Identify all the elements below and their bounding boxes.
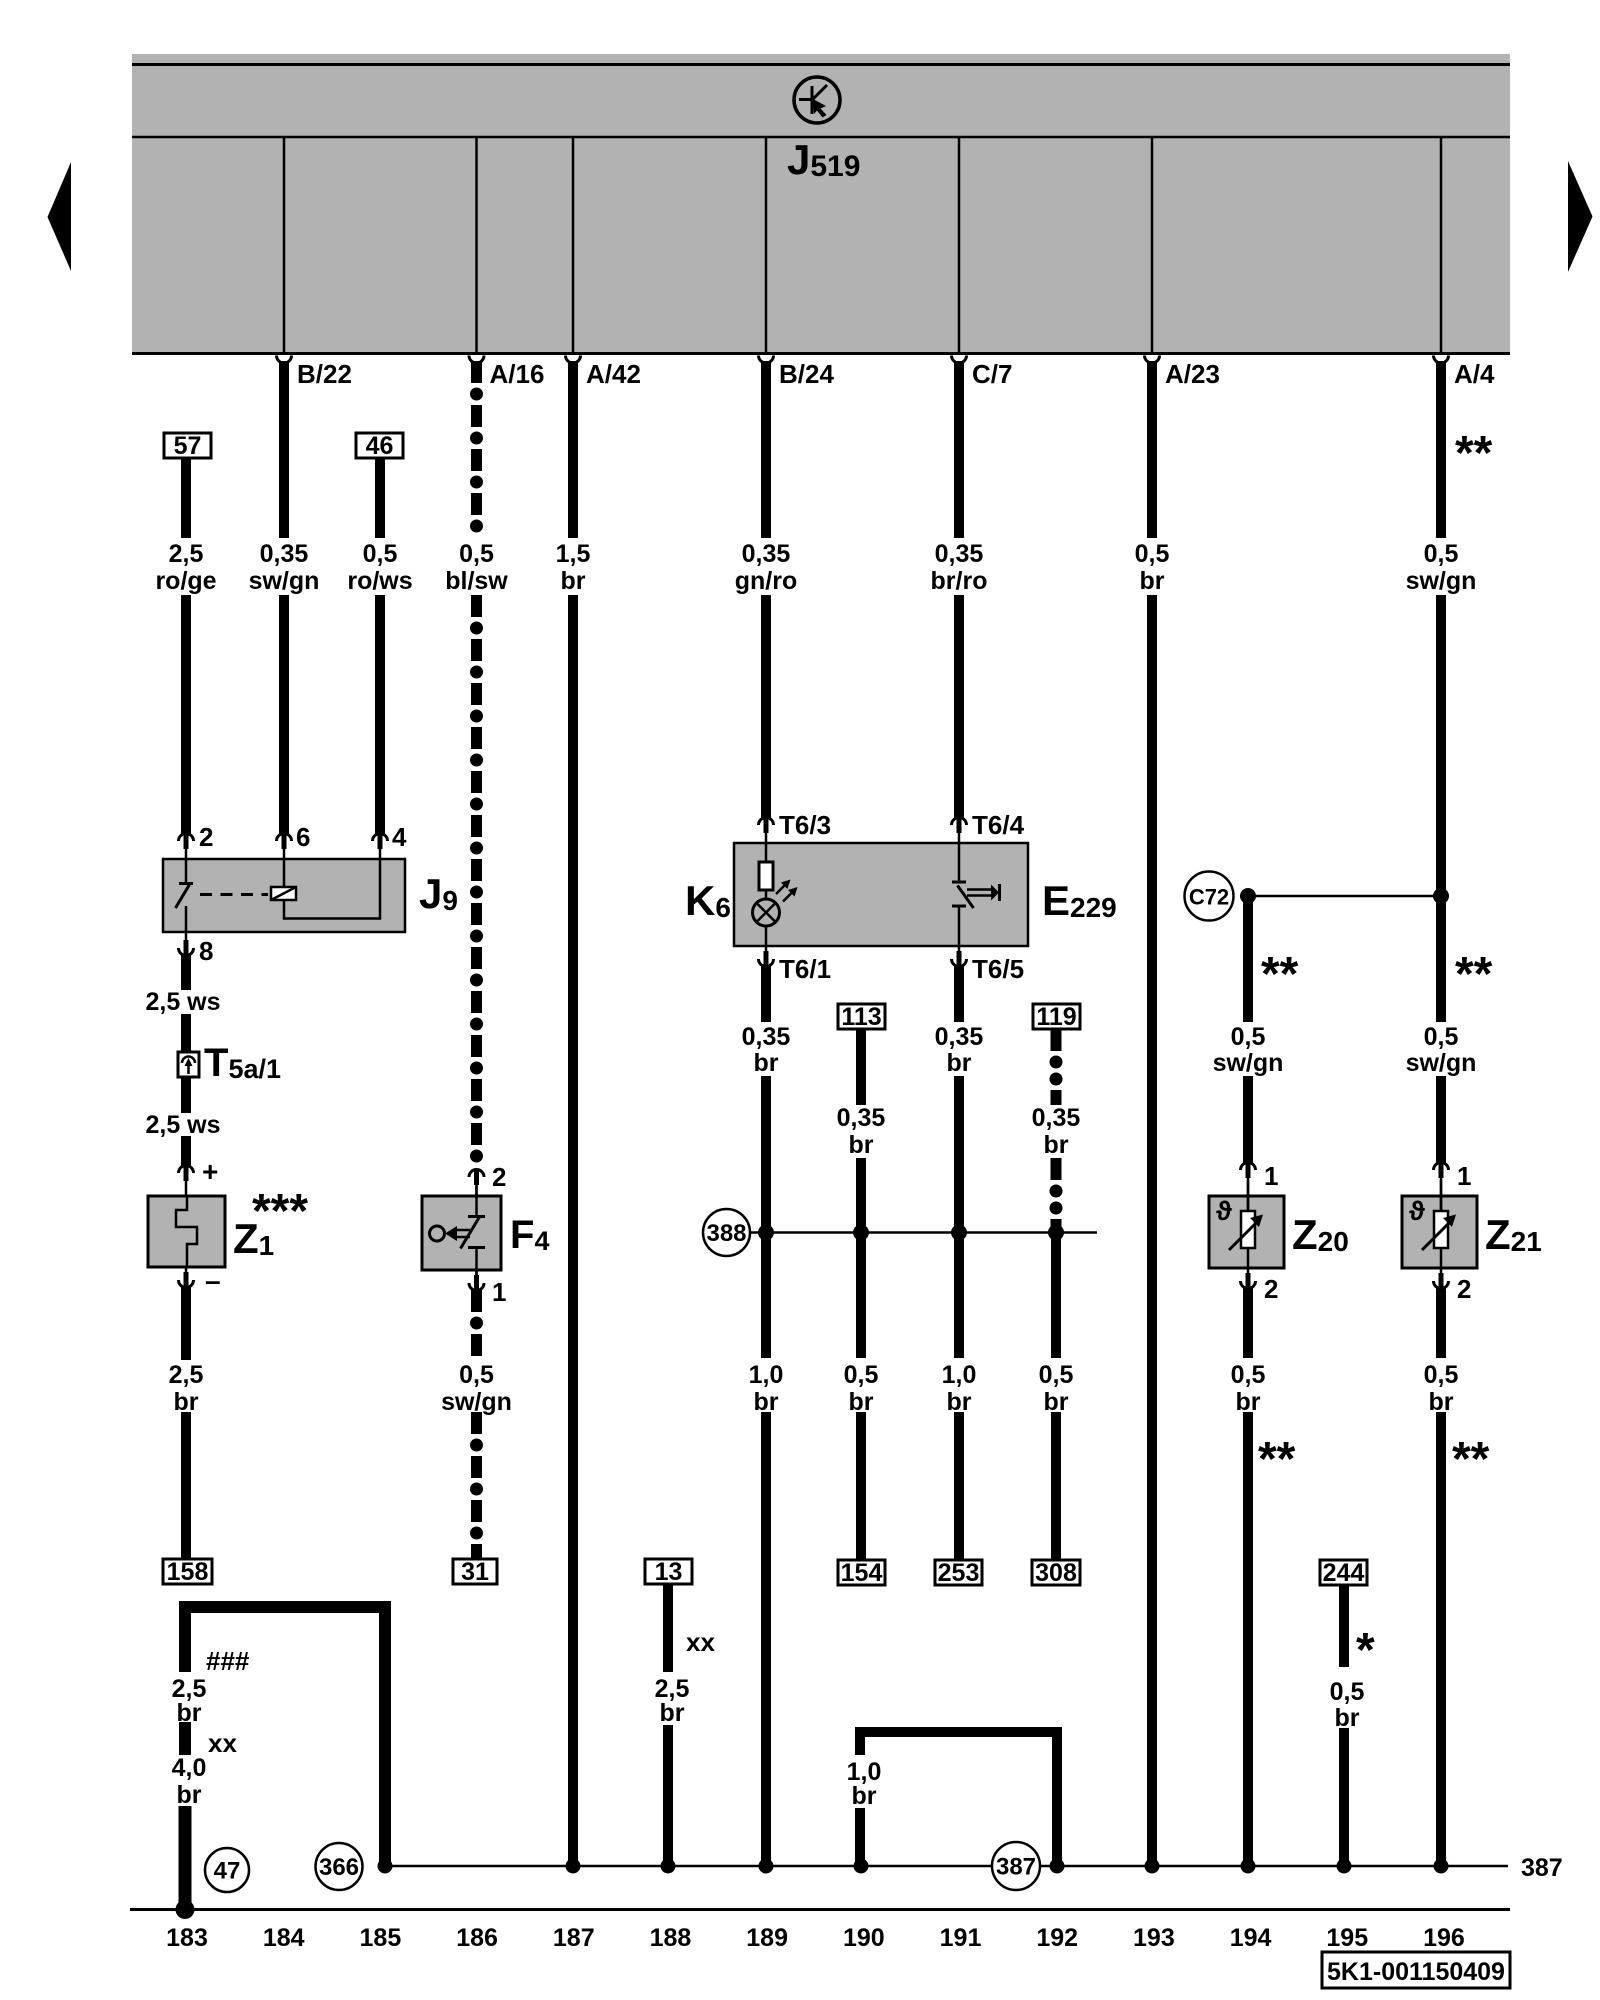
K6 pin T6/1: [765, 946, 768, 951]
svg-text:br: br: [754, 1388, 779, 1416]
wire 1,5 br from J519 A/42 to ground line: [568, 361, 578, 538]
svg-text:113: 113: [841, 1003, 881, 1031]
wire 0,5 br from ground 244 to ground line: [1339, 1585, 1349, 1667]
wire 0,35 br from K6 T6/1 to node 388 and 1,0 br down to ground line: [761, 966, 771, 1022]
junction: [378, 1859, 393, 1874]
svg-text:8: 8: [199, 936, 213, 966]
junction: [1240, 888, 1256, 904]
svg-text:2: 2: [199, 822, 213, 852]
right continuation arrow: [1568, 161, 1593, 272]
svg-text:196: 196: [1423, 1924, 1465, 1952]
svg-text:–: –: [205, 1265, 221, 1296]
terminal 46: [356, 433, 403, 458]
svg-text:0,5: 0,5: [363, 540, 398, 568]
svg-text:sw/gn: sw/gn: [1213, 1049, 1284, 1077]
svg-text:A/23: A/23: [1165, 359, 1220, 389]
svg-text:1,0: 1,0: [942, 1361, 977, 1389]
relay J9: [163, 859, 405, 932]
svg-text:gn/ro: gn/ro: [735, 567, 798, 595]
wire 0,5 br from Z21 pin2 to ground line: [1436, 1288, 1446, 1358]
wire 0,35 br dash-dot from connector 119 to node 388, 0,5 br to ground 308: [1051, 1029, 1062, 1105]
internal pin lines of J519: [283, 137, 286, 352]
svg-text:br: br: [174, 1388, 199, 1416]
wire 0,5 sw/gn dash-dot from F4 pin1 to ground 31: [471, 1290, 482, 1356]
wire 0,5 ro/ws from terminal 46 to J9 pin4: [375, 458, 385, 538]
wire 0,35 br / 0,5 br from connector 113 through node 388 to ground 154: [856, 1029, 866, 1105]
svg-text:br/ro: br/ro: [931, 567, 988, 595]
svg-text:br: br: [754, 1049, 779, 1077]
left continuation arrow: [48, 162, 72, 271]
svg-text:46: 46: [366, 432, 394, 460]
svg-text:192: 192: [1036, 1924, 1078, 1952]
svg-text:A/4: A/4: [1454, 359, 1495, 389]
node C72 wire link: [1256, 895, 1441, 898]
svg-text:189: 189: [746, 1924, 788, 1952]
svg-text:119: 119: [1036, 1003, 1076, 1031]
E229 pin T6/4: [952, 818, 967, 825]
wire 0,5 bl/sw from J519 A/16 to F4 pin2 (dash-dot): [471, 361, 482, 515]
svg-text:0,5: 0,5: [459, 1361, 494, 1389]
wire 0,5 sw/gn from J519 A/4 through node C72 to Z21 pin1: [1436, 361, 1446, 538]
svg-text:387: 387: [996, 1854, 1036, 1881]
brake light switch F4: [422, 1186, 501, 1277]
diagram id box 5K1-001150409: [1322, 1952, 1510, 1988]
svg-text:br: br: [947, 1388, 972, 1416]
svg-text:2: 2: [1457, 1274, 1471, 1304]
junction: [1145, 1859, 1160, 1874]
svg-text:sw/gn: sw/gn: [441, 1388, 512, 1416]
svg-text:B/24: B/24: [779, 359, 834, 389]
junction: [566, 1859, 581, 1874]
svg-text:13: 13: [655, 1558, 683, 1586]
junction: [1241, 1859, 1256, 1874]
svg-text:ϑ: ϑ: [1216, 1196, 1232, 1226]
J9 pin 4: [373, 834, 388, 841]
svg-text:sw/gn: sw/gn: [1406, 1049, 1477, 1077]
wire 2,5 br / 4,0 br ground loop from terminal 158 area: [179, 1601, 391, 1613]
svg-text:br: br: [1044, 1388, 1069, 1416]
junction: [661, 1859, 676, 1874]
svg-text:0,5: 0,5: [1039, 1361, 1074, 1389]
J519 pin A/23 connector: [1145, 356, 1160, 364]
svg-text:+: +: [202, 1156, 218, 1187]
svg-text:1: 1: [1264, 1161, 1278, 1191]
svg-text:br: br: [561, 567, 586, 595]
svg-text:195: 195: [1326, 1924, 1368, 1952]
battery Z1: [148, 1196, 225, 1267]
wire 2,5 ws from J9 pin8 to battery Z1: [181, 955, 191, 990]
J9 pin 6: [277, 834, 292, 841]
ground line 387: [385, 1865, 991, 1868]
svg-text:5K1-001150409: 5K1-001150409: [1327, 1958, 1505, 1986]
svg-text:br: br: [1335, 1704, 1360, 1732]
wire 0,35 br from E229 T6/5 through node 388, 1,0 br to ground 253: [954, 966, 964, 1022]
J519 pin B/24 connector: [759, 356, 774, 364]
junction: [1337, 1859, 1352, 1874]
wire 1,0 br ground loop (tracks 190-192): [855, 1727, 1062, 1737]
svg-text:br: br: [947, 1049, 972, 1077]
svg-text:4,0: 4,0: [172, 1754, 207, 1782]
svg-text:2,5: 2,5: [169, 1361, 204, 1389]
svg-text:186: 186: [456, 1924, 498, 1952]
wire 0,5 br from J519 A/23 to ground line: [1147, 361, 1157, 538]
junction: [854, 1859, 869, 1874]
svg-text:ϑ: ϑ: [1409, 1196, 1425, 1226]
F4 pin 2: [469, 1170, 484, 1178]
connector 113: [838, 1004, 885, 1029]
wire 2,5 br from Z1 minus to ground 158: [181, 1287, 191, 1360]
svg-text:244: 244: [1323, 1559, 1365, 1587]
svg-text:191: 191: [940, 1924, 982, 1952]
junction: [853, 1225, 869, 1241]
ground 253: [935, 1560, 982, 1585]
svg-text:xx: xx: [686, 1627, 715, 1657]
ground 13: [645, 1559, 692, 1584]
ground 158: [163, 1559, 212, 1584]
svg-text:C/7: C/7: [972, 359, 1012, 389]
svg-text:br: br: [1236, 1388, 1261, 1416]
svg-text:1,5: 1,5: [556, 540, 591, 568]
wire 0,35 gn/ro from J519 B/24 to K6 T6/3: [761, 361, 771, 538]
svg-text:T6/3: T6/3: [779, 810, 831, 840]
svg-text:388: 388: [706, 1220, 746, 1247]
bottom frame line: [130, 1908, 1510, 1911]
svg-text:194: 194: [1230, 1924, 1272, 1952]
svg-text:2: 2: [492, 1162, 506, 1192]
svg-text:1: 1: [492, 1277, 506, 1307]
svg-text:253: 253: [938, 1559, 980, 1587]
svg-text:T6/5: T6/5: [972, 954, 1024, 984]
J519 pin A/4 connector: [1434, 356, 1449, 364]
svg-text:T6/1: T6/1: [779, 954, 831, 984]
F4 pin 1: [475, 1270, 478, 1275]
svg-text:xx: xx: [208, 1728, 237, 1758]
wire 0,5 sw/gn from node C72 to Z20 pin1: [1243, 896, 1253, 1022]
svg-text:187: 187: [553, 1924, 595, 1952]
wire 2,5 ro/ge from terminal 57 to J9 pin2: [181, 458, 191, 538]
svg-text:ro/ge: ro/ge: [155, 567, 216, 595]
svg-text:0,5: 0,5: [1424, 1023, 1459, 1051]
ground 31: [453, 1559, 497, 1584]
svg-text:**: **: [1455, 427, 1493, 480]
svg-text:2,5 ws: 2,5 ws: [145, 988, 220, 1016]
junction: [951, 1225, 967, 1241]
J519 continuation-arrow symbol in circle: [794, 77, 840, 123]
svg-text:0,5: 0,5: [1424, 1361, 1459, 1389]
svg-text:0,35: 0,35: [935, 1023, 984, 1051]
Z21 pin 2: [1440, 1268, 1443, 1273]
svg-text:1: 1: [1457, 1161, 1471, 1191]
svg-text:br: br: [849, 1388, 874, 1416]
svg-text:br: br: [177, 1699, 202, 1727]
svg-text:2,5 ws: 2,5 ws: [145, 1111, 220, 1139]
node 388: [703, 1209, 750, 1256]
svg-text:1,0: 1,0: [749, 1361, 784, 1389]
wire 0,35 br/ro from J519 C/7 to E229 T6/4: [954, 361, 964, 538]
svg-text:0,35: 0,35: [260, 540, 309, 568]
wire 0,5 br from Z20 pin2 to ground line: [1243, 1288, 1253, 1358]
node 47: [205, 1848, 249, 1892]
ground 154: [838, 1560, 885, 1585]
svg-text:57: 57: [174, 432, 202, 460]
svg-text:47: 47: [214, 1858, 241, 1885]
svg-text:sw/gn: sw/gn: [1406, 567, 1477, 595]
connector T5a/1: [178, 1052, 199, 1077]
svg-text:2: 2: [1264, 1274, 1278, 1304]
wire 2,5 br from ground 13 to ground line: [663, 1583, 673, 1672]
svg-text:31: 31: [461, 1558, 489, 1586]
svg-text:0,35: 0,35: [742, 540, 791, 568]
svg-text:br: br: [849, 1131, 874, 1159]
svg-text:0,35: 0,35: [1032, 1104, 1081, 1132]
node C72: [1185, 872, 1234, 921]
J519 pin A/16 connector: [469, 356, 484, 364]
svg-text:*: *: [1356, 1624, 1375, 1677]
junction: [758, 1225, 774, 1241]
E229 pin T6/5: [958, 946, 961, 951]
svg-text:br: br: [660, 1699, 685, 1727]
svg-text:C72: C72: [1189, 885, 1229, 910]
Z1 plus pin: [179, 1166, 194, 1173]
svg-text:ro/ws: ro/ws: [347, 567, 412, 595]
Z1 minus pin: [185, 1267, 188, 1272]
svg-text:br: br: [1044, 1131, 1069, 1159]
svg-text:0,5: 0,5: [1424, 540, 1459, 568]
svg-text:A/42: A/42: [586, 359, 641, 389]
svg-text:**: **: [1258, 1433, 1296, 1486]
junction: [1050, 1859, 1065, 1874]
junction: [1434, 1859, 1449, 1874]
svg-text:br: br: [852, 1782, 877, 1810]
svg-text:0,35: 0,35: [742, 1023, 791, 1051]
svg-text:sw/gn: sw/gn: [249, 567, 320, 595]
ground 308: [1032, 1560, 1080, 1585]
svg-text:**: **: [1452, 1433, 1490, 1486]
svg-text:0,5: 0,5: [1330, 1678, 1365, 1706]
terminal 57: [164, 433, 211, 458]
svg-text:158: 158: [167, 1558, 209, 1586]
Z20 pin 2: [1247, 1268, 1250, 1273]
node 387: [992, 1842, 1040, 1890]
svg-text:**: **: [1455, 948, 1493, 1001]
svg-text:366: 366: [319, 1854, 359, 1881]
svg-text:2,5: 2,5: [169, 540, 204, 568]
junction: [759, 1859, 774, 1874]
svg-text:T6/4: T6/4: [972, 810, 1025, 840]
svg-text:308: 308: [1035, 1559, 1077, 1587]
svg-text:br: br: [177, 1781, 202, 1809]
svg-text:6: 6: [296, 822, 310, 852]
svg-text:0,5: 0,5: [1135, 540, 1170, 568]
svg-text:188: 188: [650, 1924, 692, 1952]
junction: [1048, 1225, 1064, 1241]
svg-text:185: 185: [360, 1924, 402, 1952]
svg-text:4: 4: [392, 822, 407, 852]
svg-text:br: br: [1140, 567, 1165, 595]
Z20 pin 1: [1241, 1163, 1256, 1170]
svg-text:0,35: 0,35: [935, 540, 984, 568]
svg-text:0,35: 0,35: [837, 1104, 886, 1132]
J9 pin 2: [179, 834, 194, 841]
svg-text:A/16: A/16: [490, 359, 545, 389]
svg-text:190: 190: [843, 1924, 885, 1952]
node 388 wire link: [750, 1231, 1097, 1234]
svg-text:###: ###: [206, 1646, 250, 1676]
svg-text:B/22: B/22: [297, 359, 352, 389]
svg-text:0,5: 0,5: [844, 1361, 879, 1389]
svg-text:bl/sw: bl/sw: [445, 567, 508, 595]
node 366: [316, 1843, 363, 1890]
svg-text:154: 154: [841, 1559, 883, 1587]
lamp K6 and switch E229 unit: [734, 843, 1028, 946]
svg-text:387: 387: [1521, 1854, 1563, 1882]
svg-text:br: br: [1429, 1388, 1454, 1416]
ground point node 47: [176, 1900, 195, 1919]
svg-text:193: 193: [1133, 1924, 1175, 1952]
ground 244: [1320, 1560, 1367, 1585]
svg-text:183: 183: [166, 1924, 208, 1952]
heated washer jet Z21: [1402, 1180, 1477, 1268]
K6 pin T6/3: [759, 818, 774, 825]
Z21 pin 1: [1434, 1163, 1449, 1170]
svg-text:**: **: [1261, 948, 1299, 1001]
svg-text:0,5: 0,5: [1231, 1023, 1266, 1051]
J519 pin A/42 connector: [566, 356, 581, 364]
junction: [1433, 888, 1449, 904]
svg-text:0,5: 0,5: [459, 540, 494, 568]
control unit bus bar J519: [132, 54, 1510, 353]
wire 0,35 sw/gn from J519 B/22 to J9 pin6: [279, 361, 289, 538]
svg-text:184: 184: [263, 1924, 305, 1952]
connector 119: [1033, 1004, 1080, 1029]
J519 pin C/7 connector: [952, 356, 967, 363]
J9 pin 8: [185, 932, 188, 940]
heated washer jet Z20: [1209, 1180, 1284, 1268]
svg-text:0,5: 0,5: [1231, 1361, 1266, 1389]
J519 pin B/22 connector: [277, 356, 292, 364]
